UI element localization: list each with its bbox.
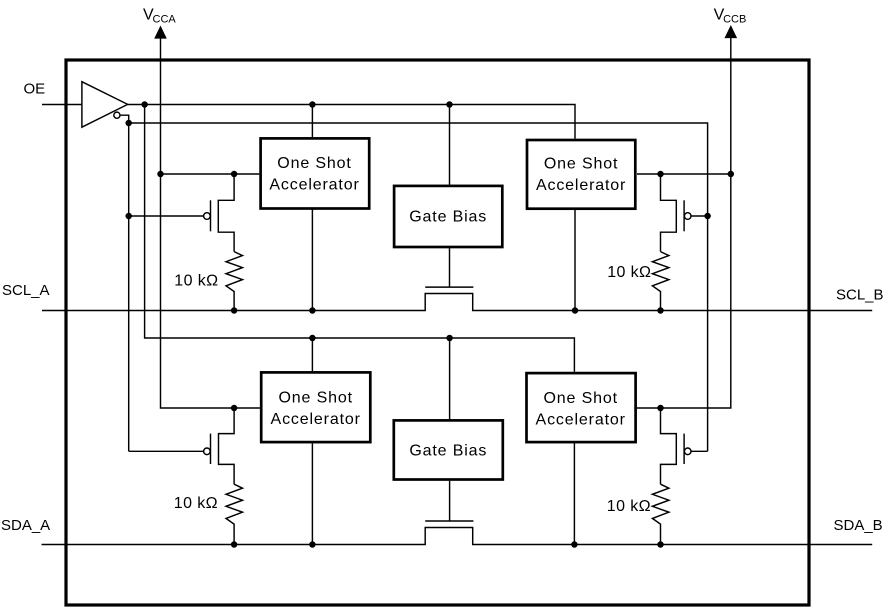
svg-text:One Shot: One Shot — [278, 389, 352, 406]
svg-text:SCL_B: SCL_B — [836, 287, 883, 304]
svg-text:10 kΩ: 10 kΩ — [607, 498, 651, 515]
svg-text:Accelerator: Accelerator — [536, 412, 626, 429]
svg-text:10 kΩ: 10 kΩ — [607, 264, 651, 281]
svg-text:Gate Bias: Gate Bias — [409, 443, 487, 460]
svg-text:OE: OE — [24, 80, 46, 97]
svg-text:Accelerator: Accelerator — [536, 177, 626, 194]
svg-text:SCL_A: SCL_A — [2, 282, 50, 299]
svg-text:Gate Bias: Gate Bias — [409, 209, 487, 226]
svg-text:One Shot: One Shot — [544, 156, 618, 173]
svg-text:10 kΩ: 10 kΩ — [174, 495, 218, 512]
svg-text:Accelerator: Accelerator — [269, 176, 359, 193]
svg-text:10 kΩ: 10 kΩ — [174, 272, 218, 289]
svg-text:CCB: CCB — [723, 14, 746, 26]
svg-text:CCA: CCA — [153, 14, 177, 26]
svg-text:Accelerator: Accelerator — [271, 411, 361, 428]
svg-text:SDA_B: SDA_B — [834, 517, 883, 534]
svg-text:One Shot: One Shot — [277, 155, 351, 172]
svg-text:SDA_A: SDA_A — [1, 517, 50, 534]
svg-text:One Shot: One Shot — [543, 390, 617, 407]
